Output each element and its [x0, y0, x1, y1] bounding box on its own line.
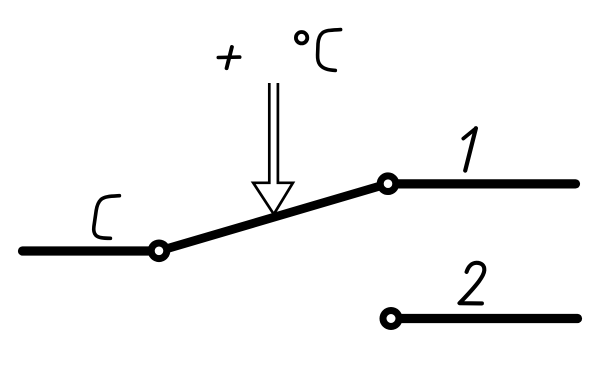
- wire: terminal 2 lead (right): [391, 314, 578, 323]
- label 2: terminal 2: [460, 263, 485, 304]
- label: degree symbol of °C: [296, 32, 307, 43]
- label 1: terminal 1: [463, 128, 476, 170]
- wire: switch lever from C to terminal 1: [159, 184, 388, 251]
- label: plus sign of +°C: [218, 47, 239, 68]
- label: C of °C: [318, 30, 341, 71]
- wire: terminal 1 lead (right): [388, 179, 576, 188]
- node 1: terminal 1 contact circle: [380, 176, 396, 192]
- label C: common terminal: [94, 196, 120, 239]
- wire: common terminal lead (left): [23, 246, 160, 255]
- node C: common contact circle: [151, 243, 167, 259]
- actuator arrow (temperature actuation, hollow double-line arrow): [253, 83, 293, 214]
- node 2: terminal 2 contact circle: [383, 311, 399, 327]
